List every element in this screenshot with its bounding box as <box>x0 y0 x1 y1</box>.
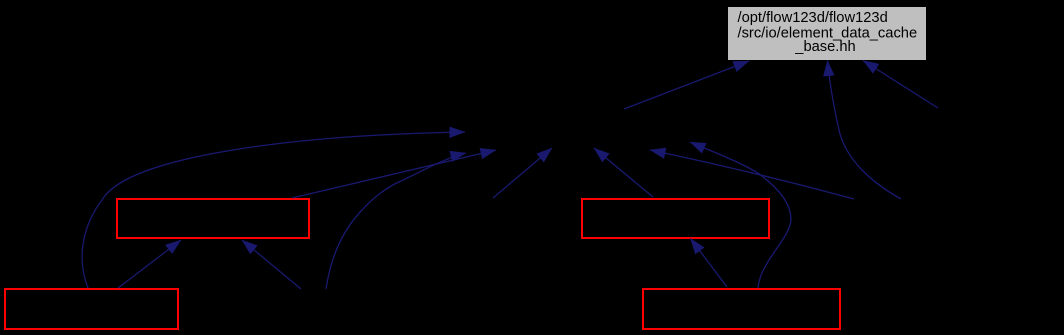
edge F: invisible rank1 node to main node <box>624 61 749 109</box>
node red box R3b (bottom-right) <box>643 289 840 329</box>
edge C: invisible middle node to main node (long curve up) <box>828 61 902 200</box>
edge G: bottom-right box to middle-right box bottom <box>691 239 728 288</box>
svg-text:_base.hh: _base.hh <box>794 39 855 55</box>
edge L1: invisible middle node to rank1 node (shallow curve) <box>650 150 854 199</box>
edge E3: invisible bottom node to middle-left box bottom <box>242 240 301 289</box>
edge E6: invisible middle node to rank1 node bottom <box>493 148 552 198</box>
edge D: invisible rank1 node to main node <box>863 61 938 109</box>
edge E2: invisible bottom node to rank1 node bottom (curved) <box>326 153 466 289</box>
edge ARC: bottom-right box to rank1 node (big right bulge) <box>690 142 791 288</box>
edge E7: middle-right box to rank1 node bottom <box>594 148 653 197</box>
node main: /opt/flow123d/flow123d/src/io/element_data_cache_base.hh <box>728 7 926 60</box>
edge E1: middle-left box to rank1 node bottom <box>292 150 496 198</box>
node red box R2a (middle-left) <box>117 199 309 238</box>
node red box R2b (middle-right) <box>582 199 769 238</box>
edge E5: bottom-left box to rank1 node left edge (long sweep) <box>82 132 465 288</box>
svg-text:/opt/flow123d/flow123d: /opt/flow123d/flow123d <box>738 10 888 26</box>
edge E4: bottom-left box to middle-left box bottom <box>118 240 181 288</box>
node red box R3a (bottom-left) <box>5 289 178 329</box>
